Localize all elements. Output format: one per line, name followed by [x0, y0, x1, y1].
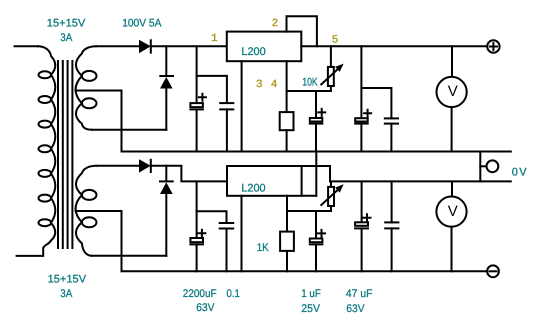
svg-text:15+15V: 15+15V: [47, 18, 86, 30]
wire U2 pin3 to minus rail: [241, 196, 243, 271]
wire node to C2 0.1 top: [197, 76, 227, 103]
terminal minus: [487, 265, 499, 277]
transformer T1 secondary winding bottom: [76, 166, 97, 256]
svg-text:4: 4: [271, 79, 278, 91]
wire U2 pin2 tab: [302, 152, 330, 196]
svg-text:0.1: 0.1: [227, 288, 240, 300]
svg-text:L200: L200: [241, 46, 265, 58]
wire D3 step to U2 pin1: [151, 166, 227, 182]
capacitor C1 2200uF plates: [190, 94, 206, 152]
wire lower output rail: [330, 180, 511, 182]
wire 0V terminal link: [479, 152, 481, 182]
svg-text:V: V: [448, 83, 458, 100]
transformer T1 secondary top loop turns: [82, 71, 97, 108]
wire top winding bottom to D2: [92, 129, 166, 131]
capacitor C7 0.1 lower plates: [220, 223, 234, 271]
svg-text:2200uF: 2200uF: [183, 288, 217, 300]
svg-text:L200: L200: [241, 182, 265, 194]
voltmeter V1: [437, 46, 467, 151]
wire U1 pin3 to 0V: [241, 61, 243, 151]
wire U1 pin4 junction row: [287, 90, 331, 92]
wire node 47uF to C5: [361, 88, 391, 118]
wire 0V rail: [122, 151, 511, 153]
resistor R2 1K: [280, 196, 294, 271]
wire bottom winding to D4: [92, 255, 166, 257]
svg-text:15+15V: 15+15V: [48, 274, 87, 286]
capacitor C10 ceramic lower: [385, 181, 398, 271]
wire node to C7 0.1 lower: [197, 211, 227, 222]
svg-text:10K: 10K: [302, 76, 318, 88]
capacitor C5 ceramic: [385, 118, 398, 151]
transformer T1 secondary winding top: [76, 46, 97, 130]
svg-text:V: V: [519, 167, 527, 179]
diode D2: [160, 46, 173, 130]
diode D1: [139, 40, 151, 53]
svg-text:3: 3: [256, 79, 263, 91]
capacitor C4 47uF: [355, 46, 371, 151]
capacitor C6 2200uF plates: [190, 230, 205, 271]
wire U2 pin4 junction row: [287, 210, 331, 212]
capacitor C3 1uF: [310, 91, 325, 152]
terminal plus: [487, 40, 499, 52]
transformer T1 primary winding: [17, 46, 56, 256]
svg-text:3A: 3A: [60, 288, 73, 300]
transformer T1 secondary bottom loop turns: [82, 190, 97, 227]
svg-text:0: 0: [512, 167, 518, 179]
transformer T1 primary loop turns: [39, 71, 52, 226]
potentiometer P1 10K: [321, 46, 343, 91]
wire top rail output: [301, 45, 487, 47]
capacitor C2 0.1 plates: [220, 103, 233, 151]
svg-text:3A: 3A: [60, 32, 73, 44]
svg-text:2: 2: [272, 18, 279, 30]
svg-text:1: 1: [211, 33, 218, 45]
svg-text:1K: 1K: [257, 242, 269, 254]
capacitor C1 2200uF top lead: [196, 46, 198, 102]
wire top rail input: [97, 45, 140, 47]
wire U1 pin2 loop: [287, 16, 317, 46]
svg-text:63V: 63V: [196, 302, 215, 314]
wire center tap top winding: [76, 91, 122, 152]
svg-text:1 uF: 1 uF: [301, 288, 321, 300]
wire center tap bottom winding: [76, 211, 122, 271]
potentiometer P2: [321, 181, 343, 211]
op-amp regulator U1 L200 box: [227, 32, 301, 62]
capacitor C8 1uF lower: [310, 211, 325, 271]
regulator U2 L200 box: [227, 166, 302, 196]
diode D3: [139, 159, 151, 172]
capacitor C6 2200uF lower lead: [196, 181, 198, 238]
svg-text:5: 5: [332, 35, 339, 47]
terminal 0V: [480, 160, 498, 172]
wire bottom rail: [122, 270, 488, 272]
resistor R1: [280, 61, 294, 151]
wire D1 to L200 pin1: [151, 45, 227, 47]
wire primary input top: [15, 45, 39, 47]
svg-text:25V: 25V: [301, 303, 320, 315]
svg-text:V: V: [448, 203, 458, 220]
transformer T1 core: [58, 61, 72, 248]
svg-text:100V 5A: 100V 5A: [122, 18, 162, 30]
svg-text:47 uF: 47 uF: [346, 288, 373, 300]
diode D4: [160, 166, 173, 256]
voltmeter V2: [436, 181, 466, 271]
wire bottom rail input: [97, 165, 140, 167]
svg-text:63V: 63V: [346, 303, 365, 315]
capacitor C9 47uF lower: [355, 181, 370, 271]
